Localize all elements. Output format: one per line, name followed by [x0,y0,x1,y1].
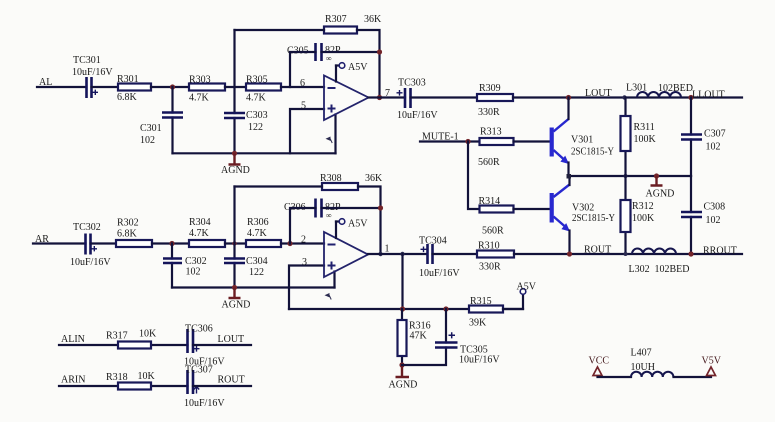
svg-text:R309: R309 [479,83,501,94]
svg-text:330R: 330R [478,107,500,118]
svg-text:102: 102 [706,215,721,226]
resistor R316 [398,309,431,365]
svg-text:39K: 39K [469,318,487,329]
capacitor C306 [284,199,341,221]
resistor R310 [477,241,514,273]
ground AGND channel 1 [221,153,250,176]
svg-text:102BED: 102BED [658,83,693,94]
svg-text:TC303: TC303 [398,78,426,89]
wire ROUT rail [514,253,742,255]
power A5V op-amp 1 [336,62,368,82]
junction AGND1 [232,151,237,156]
capacitor C303 [224,110,268,133]
wire R303 to R305 [225,86,246,88]
wire C306 left lead [290,208,316,244]
junction V301 collector [566,95,571,100]
wire R305 to op-amp pin 6 [281,86,324,88]
wire R313 to V301 base [514,140,551,142]
inductor L302 [629,249,690,275]
svg-text:6.8K: 6.8K [117,92,138,103]
wire V301 emitter riser [567,163,569,177]
svg-text:122: 122 [248,122,263,133]
wire TC304 to R310 [433,253,478,255]
svg-text:330R: 330R [479,262,501,273]
svg-text:R313: R313 [480,127,502,138]
svg-text:TC307: TC307 [185,365,213,376]
junction output 2 [378,252,382,256]
svg-text:ARIN: ARIN [61,375,85,386]
wire feedback top channel 2 [235,187,381,255]
wire AGND rail channel 2 [172,286,335,288]
junction C306 tap [287,241,292,246]
svg-text:LOUT: LOUT [218,334,245,345]
svg-text:47K: 47K [410,331,428,342]
svg-text:R315: R315 [470,296,492,307]
svg-text:10uF/16V: 10uF/16V [419,268,460,279]
resistor R313 [478,127,514,169]
capacitor C302 [163,256,207,278]
capacitor C301 [140,113,183,147]
svg-text:R308: R308 [320,173,342,184]
ground AGND mid [646,176,675,200]
svg-text:R318: R318 [106,372,128,383]
svg-text:6.8K: 6.8K [117,229,138,240]
svg-text:R317: R317 [106,331,128,342]
svg-text:100K: 100K [632,213,655,224]
ground AGND bias [389,365,418,391]
wire feedback top channel 1 [235,30,380,98]
svg-text:TC301: TC301 [73,55,101,66]
svg-text:C308: C308 [704,202,726,213]
op-amp U301 [324,76,369,144]
junction feedback tap channel 2 [232,241,236,245]
svg-text:2SC1815-Y: 2SC1815-Y [571,147,614,158]
svg-text:ROUT: ROUT [584,245,611,256]
svg-text:R301: R301 [117,74,139,85]
capacitor TC306 [184,324,225,368]
capacitor C305 [287,43,341,63]
svg-text:10uF/16V: 10uF/16V [397,110,438,121]
svg-text:V5V: V5V [702,356,722,367]
wire op-amp U302 ground pin riser [333,272,335,288]
junction C308 bottom [688,251,693,256]
svg-text:R310: R310 [478,241,500,252]
junction R316 tap [400,252,404,256]
wire TC303 to R309 [411,96,478,98]
power V5V [702,356,722,376]
resistor R318 [106,371,156,390]
svg-text:4.7K: 4.7K [189,93,210,104]
svg-text:R307: R307 [325,14,347,25]
svg-text:4.7K: 4.7K [247,228,268,239]
svg-text:36K: 36K [365,173,383,184]
svg-text:TC306: TC306 [185,324,213,335]
wire R314 to V302 base [514,208,551,210]
junction feedback C305 [377,49,382,54]
svg-text:R303: R303 [189,75,211,86]
svg-text:A5V: A5V [348,62,368,73]
wire op-amp 2 output to TC304 [368,253,427,255]
svg-text:A5V: A5V [348,219,368,230]
capacitor TC302 [70,222,111,268]
wire TC306 to LOUT [193,344,251,346]
wire R302 to R304 [152,242,189,244]
resistor R305 [246,75,281,104]
capacitor C307 [681,98,726,177]
wire output tap riser to bias line [401,254,403,309]
svg-text:R304: R304 [189,217,211,228]
capacitor C308 [681,176,725,254]
wire TC302 to R302 [91,242,117,244]
resistor R311 [621,98,657,177]
capacitor TC303 [397,78,439,122]
svg-text:102BED: 102BED [655,264,690,275]
junction R311 bottom [624,174,628,178]
wire TC301 to R301 [92,86,119,88]
svg-text:VCC: VCC [589,356,610,367]
wire feedback riser and C304 leads channel 2 [233,187,235,288]
wire C301 leads [171,87,173,153]
svg-text:A5V: A5V [517,282,537,293]
svg-text:2SC1815-Y: 2SC1815-Y [572,213,615,224]
svg-text:AGND: AGND [221,165,250,176]
wire feedback riser and C303 leads [233,30,235,153]
wire L407 to V5V [674,376,712,378]
wire op-amp pin 3 riser [289,266,324,310]
svg-text:AGND: AGND [646,189,675,200]
svg-text:∞: ∞ [326,211,332,220]
power A5V bias [517,282,537,295]
junction R312 bottom [624,252,628,256]
junction MUTE split [465,139,470,144]
resistor R302 [116,218,152,248]
wire AL to TC301 [37,86,86,88]
wire R315 to A5V [503,295,523,310]
svg-text:L302: L302 [629,264,650,275]
svg-text:102: 102 [140,135,155,146]
wire V302 emitter riser [568,231,570,255]
resistor R308 [320,173,383,190]
junction V302 emitter [567,251,572,256]
svg-text:R306: R306 [247,217,269,228]
svg-text:36K: 36K [364,14,382,25]
svg-text:V302: V302 [572,203,594,214]
wire LOUT rail [513,96,742,98]
resistor R303 [189,75,225,104]
svg-text:5: 5 [301,101,306,112]
svg-text:10uF/16V: 10uF/16V [70,257,111,268]
svg-text:10K: 10K [139,329,157,340]
capacitor C304 [224,256,268,278]
inductor L407 [631,348,674,378]
svg-text:10K: 10K [138,371,156,382]
resistor R312 [621,176,656,254]
wire mid AGND rail [569,175,692,177]
wire R304 to R306 [225,242,246,244]
junction node AL1 [170,84,175,89]
resistor R306 [246,217,281,247]
svg-text:10uF/16V: 10uF/16V [72,67,113,78]
resistor R314 [479,196,514,237]
svg-text:10UH: 10UH [631,362,655,373]
capacitor TC301 [72,55,113,98]
wire op-amp output to TC303 [369,96,406,98]
svg-text:10uF/16V: 10uF/16V [459,355,500,366]
svg-text:R311: R311 [634,122,655,133]
junction R316 top [400,306,405,311]
capacitor TC307 [184,365,225,410]
svg-text:C303: C303 [246,110,268,121]
wire AGND rail channel 1 [173,152,336,154]
wire MUTE-1 to R313 [420,140,480,142]
svg-text:R312: R312 [632,201,654,212]
svg-text:ALIN: ALIN [61,334,85,345]
junction feedback C306 [378,205,383,210]
svg-text:ROUT: ROUT [218,375,245,386]
svg-text:C304: C304 [246,256,268,267]
svg-text:102: 102 [706,142,721,153]
svg-text:560R: 560R [478,157,500,168]
svg-text:L407: L407 [631,348,652,359]
svg-text:2: 2 [301,235,306,246]
inductor L301 [626,83,693,98]
svg-text:LOUT: LOUT [585,88,612,99]
wire C306 right lead [322,207,381,209]
svg-text:122: 122 [249,267,264,278]
svg-text:C307: C307 [704,129,726,140]
svg-text:4.7K: 4.7K [246,93,267,104]
power A5V op-amp 2 [336,219,368,239]
transistor Q1 V301 [552,119,614,164]
wire VCC to L407 [598,376,632,378]
wire TC307 to ROUT [193,385,251,387]
svg-text:R305: R305 [246,75,268,86]
junction output 1 [377,95,382,100]
svg-text:R314: R314 [479,196,501,207]
svg-text:560R: 560R [482,226,504,237]
svg-text:C301: C301 [140,123,162,134]
junction emitter-collector node [567,174,572,179]
resistor R307 [324,14,382,34]
wire ALIN to TC306 [59,344,188,346]
wire C305 right lead [322,51,380,53]
svg-text:C302: C302 [185,256,207,267]
wire C305 left lead [290,52,316,87]
junction AR1 [169,241,174,246]
svg-text:RROUT: RROUT [703,246,737,257]
resistor R304 [189,217,225,247]
svg-text:∞: ∞ [326,54,332,63]
wire AR to TC302 [33,242,86,244]
ground AGND channel 2 [222,288,251,311]
capacitor TC305 [435,309,500,366]
resistor R317 [106,329,157,349]
svg-text:6: 6 [300,78,305,89]
svg-text:100K: 100K [634,134,657,145]
wire V302 collector riser [568,176,570,185]
resistor R309 [477,83,513,118]
power VCC [589,356,610,376]
resistor R1 R301 [117,74,151,103]
svg-text:10uF/16V: 10uF/16V [184,398,225,409]
wire bias line [289,308,523,310]
junction AGND2 [232,285,237,290]
svg-text:TC304: TC304 [419,236,447,247]
wire op-amp U301 ground pin riser [334,115,336,154]
svg-text:AGND: AGND [389,380,418,391]
svg-text:V301: V301 [571,135,593,146]
wire TC305 bottom lead to R316 [402,348,446,366]
transistor Q2 V302 [552,185,615,232]
junction AGND mid [654,173,659,178]
junction R311 top [622,95,626,99]
svg-text:3: 3 [302,257,307,268]
svg-text:L301: L301 [626,83,647,94]
junction R316 bottom [399,362,404,367]
wire R306 to op-amp pin 2 [281,242,324,244]
wire op-amp pin 5 loop [290,109,324,153]
svg-text:102: 102 [186,267,201,278]
svg-text:7: 7 [385,88,390,99]
svg-text:AGND: AGND [222,300,251,311]
capacitor TC304 [419,236,460,280]
junction TC305 top [443,306,448,311]
svg-text:TC302: TC302 [73,222,101,233]
resistor R315 [469,296,503,329]
svg-text:R302: R302 [117,218,139,229]
svg-text:4.7K: 4.7K [189,228,210,239]
wire R301 to R303 [151,86,189,88]
svg-text:1: 1 [385,244,390,255]
op-amp U302 [324,232,368,300]
junction C307 top [688,95,693,100]
wire MUTE riser to R314 [468,142,480,210]
wire C302 leads [171,244,173,288]
svg-text:LLOUT: LLOUT [692,90,725,101]
wire V301 collector riser [567,98,569,120]
wire ARIN to TC307 [59,385,188,387]
